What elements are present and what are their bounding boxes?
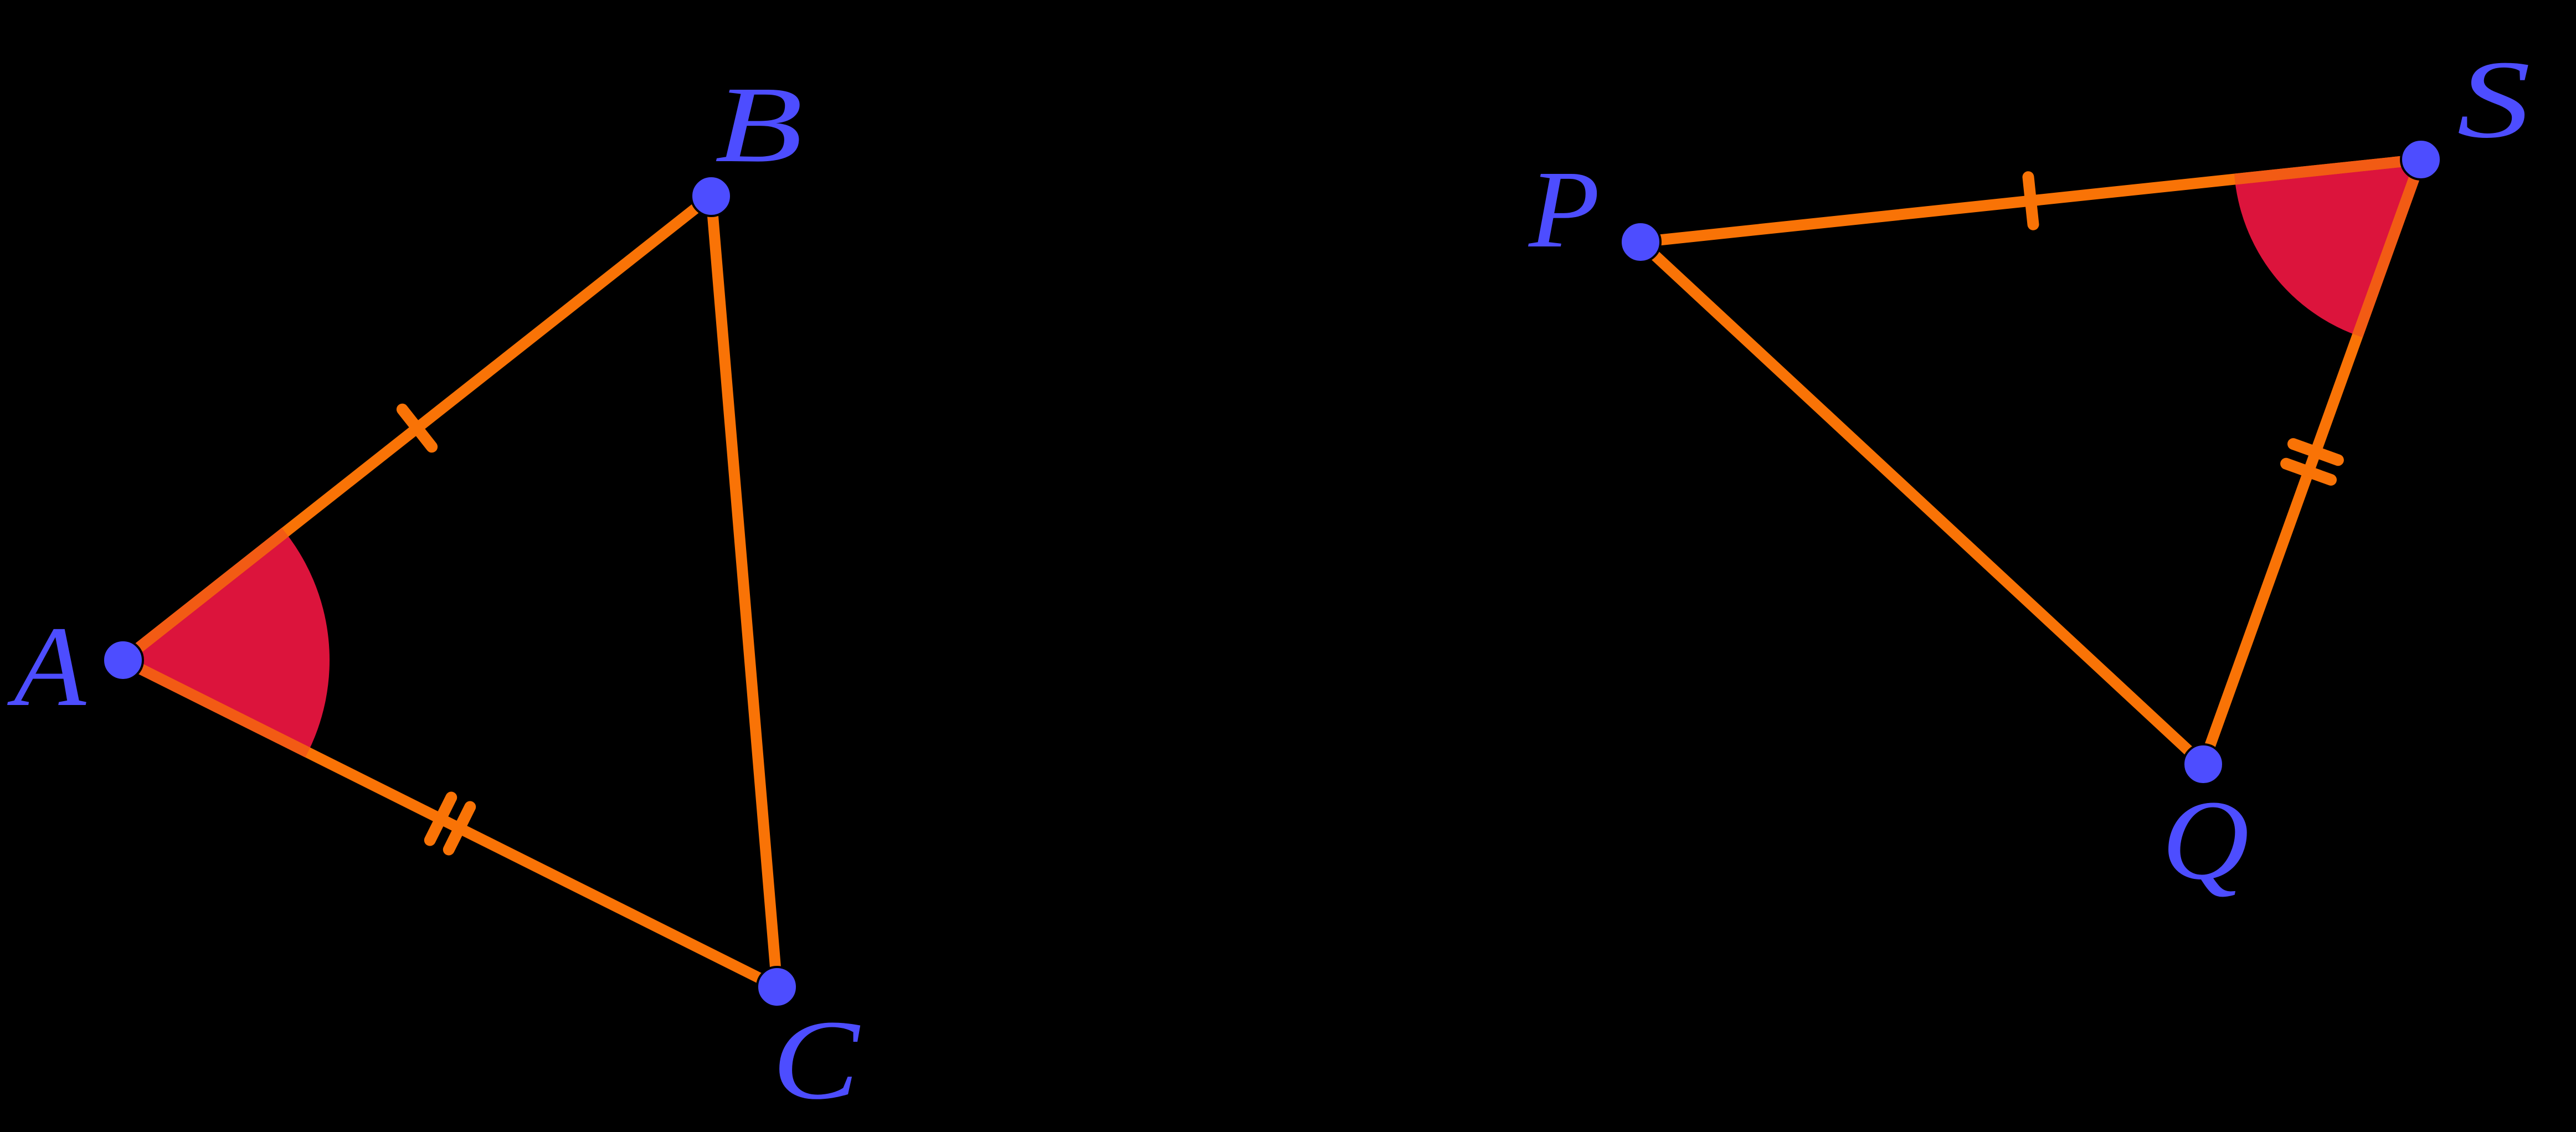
svg-text:Q: Q [2162,777,2249,903]
svg-text:C: C [772,996,861,1123]
svg-text:A: A [7,603,87,730]
svg-text:P: P [1528,148,1600,271]
svg-text:B: B [714,64,803,184]
svg-text:S: S [2457,38,2531,162]
